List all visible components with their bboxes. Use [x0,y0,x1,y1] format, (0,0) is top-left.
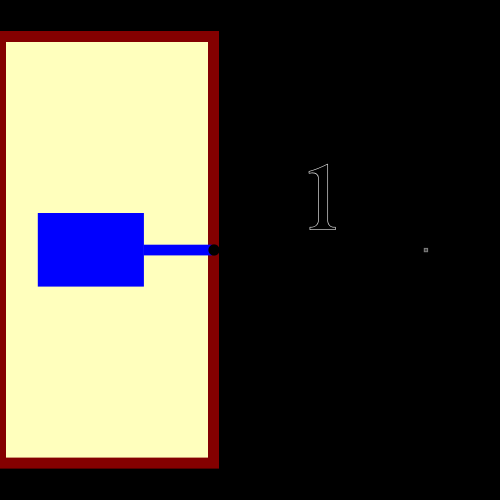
wire (pin stub) [144,245,212,256]
pin end dot [208,244,219,255]
grid origin marker [424,248,427,251]
pin number 1 (outlined serif glyph) [309,164,335,230]
blue rectangle [38,213,144,287]
component body box (yellow fill, maroon border) [1,37,214,464]
